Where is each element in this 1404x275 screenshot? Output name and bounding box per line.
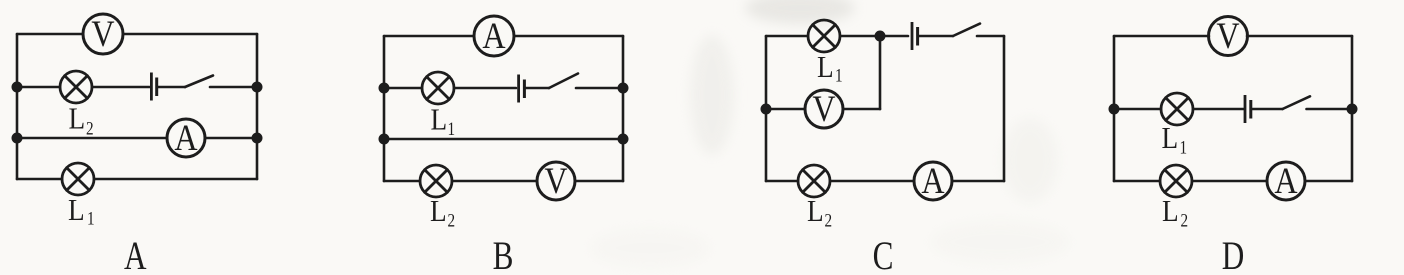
svg-text:2: 2 — [825, 210, 833, 231]
scan smudge right of C — [1002, 118, 1058, 202]
svg-text:A: A — [124, 233, 147, 275]
wire: B row3 plain wire — [384, 138, 623, 141]
wire: B top left segment — [384, 35, 474, 38]
node D-left-row2 — [1110, 105, 1118, 113]
wire: D top right segment — [1247, 35, 1352, 38]
wire: D row2 middle segment — [1193, 108, 1244, 111]
wire: C left vertical — [765, 36, 768, 181]
wire: C bottom left segment — [766, 180, 798, 183]
voltmeter V (circuit B bottom) — [537, 162, 575, 200]
lamp L2 (circuit C) — [798, 165, 830, 197]
switch S (circuit C) lever — [953, 24, 980, 36]
svg-text:A: A — [1274, 161, 1297, 201]
voltmeter V (circuit A top) — [83, 14, 123, 54]
svg-text:D: D — [1222, 233, 1245, 275]
svg-text:B: B — [493, 233, 514, 275]
lamp L2 (circuit B) — [420, 165, 452, 197]
battery (circuit D): short plate — [1249, 100, 1252, 119]
wire: B battery to switch — [526, 87, 549, 90]
scan smudge left of C — [690, 35, 734, 155]
wire: C battery to switch — [919, 35, 953, 38]
svg-text:A: A — [174, 118, 197, 158]
node A-left-row2 — [13, 83, 21, 91]
node B-left-row2 — [380, 84, 388, 92]
wire: C bottom right segment — [952, 180, 1004, 183]
node B-left-row3 — [380, 135, 388, 143]
lamp L1 (circuit C) — [808, 20, 840, 52]
svg-text:V: V — [91, 14, 114, 54]
svg-text:C: C — [873, 233, 894, 275]
wire: A row3 left segment — [17, 137, 167, 140]
svg-text:1: 1 — [448, 118, 456, 139]
switch S (circuit B) lever — [549, 74, 578, 89]
wire: A battery to switch — [158, 86, 185, 89]
svg-text:L: L — [817, 50, 834, 84]
wire: B right vertical — [622, 36, 625, 181]
svg-text:L: L — [69, 102, 86, 136]
svg-text:L: L — [68, 193, 85, 227]
switch S (circuit A) lever — [185, 76, 213, 88]
ammeter A (circuit A) — [167, 119, 205, 157]
svg-text:L: L — [807, 194, 824, 228]
scan smudge top of C — [745, 0, 855, 24]
svg-text:V: V — [544, 161, 567, 201]
svg-text:A: A — [921, 161, 944, 201]
lamp L1 (circuit D) — [1161, 93, 1193, 125]
voltmeter V (circuit C) — [805, 90, 843, 128]
wire: B top right segment — [514, 35, 623, 38]
wire: D battery to switch — [1253, 108, 1283, 111]
wire: A top right segment — [123, 33, 257, 36]
wire: B row2 middle segment — [454, 87, 516, 90]
node D-right-row2 — [1348, 105, 1356, 113]
node B-right-row2 — [619, 84, 627, 92]
wire: B bottom right segment — [575, 180, 623, 183]
node B-right-row3 — [619, 135, 627, 143]
lamp L1 (circuit A) — [62, 163, 94, 195]
svg-text:A: A — [482, 16, 505, 56]
wire: A top left segment — [17, 33, 83, 36]
wire: C lamp to node — [840, 35, 908, 38]
ammeter A (circuit C) — [914, 162, 952, 200]
switch S (circuit D) lever — [1283, 96, 1311, 109]
wire: A row2 left segment — [17, 86, 60, 89]
lamp L2 (circuit D) — [1160, 165, 1192, 197]
battery (circuit A): short plate — [155, 78, 158, 97]
node A-left-row3 — [13, 134, 21, 142]
svg-text:L: L — [1162, 194, 1179, 228]
svg-text:V: V — [1216, 16, 1239, 56]
node C-left (junction of V branch) — [762, 105, 770, 113]
wire: A row2 middle segment — [92, 86, 150, 89]
wire: D switch to right node — [1307, 108, 1353, 111]
wire: D right vertical — [1351, 36, 1354, 181]
svg-text:L: L — [431, 103, 448, 137]
wire: C V-branch right segment — [843, 108, 880, 111]
svg-text:L: L — [1162, 121, 1179, 155]
ammeter A (circuit B top) — [474, 16, 514, 56]
svg-text:L: L — [430, 194, 447, 228]
wire: D row2 left segment — [1114, 108, 1161, 111]
wire: D bottom middle segment — [1192, 180, 1267, 183]
wire: D bottom left segment — [1114, 180, 1160, 183]
wire: D bottom right segment — [1305, 180, 1352, 183]
wire: A left vertical — [16, 34, 19, 179]
battery (circuit C): short plate — [916, 27, 919, 46]
wire: A switch to right node — [210, 86, 257, 89]
battery (circuit A): long plate — [150, 73, 153, 101]
scan smudge bottom right of C — [930, 220, 1070, 264]
wire: C riser from top node down to V branch — [879, 36, 882, 109]
node A-right-row3 — [253, 134, 261, 142]
svg-text:V: V — [812, 89, 835, 129]
battery (circuit B): short plate — [523, 80, 526, 99]
svg-text:2: 2 — [86, 118, 94, 139]
svg-text:1: 1 — [835, 65, 843, 86]
wire: C right vertical — [1003, 36, 1006, 181]
wire: C switch to top-right corner — [977, 35, 1004, 38]
wire: C bottom middle segment — [830, 180, 914, 183]
wire: A bottom right segment — [94, 178, 257, 181]
svg-text:1: 1 — [87, 208, 95, 229]
wire: B bottom middle segment — [452, 180, 537, 183]
wire: C V-branch left segment — [766, 108, 805, 111]
lamp L2 (circuit A) — [60, 71, 92, 103]
wire: C top left segment — [766, 35, 808, 38]
svg-text:2: 2 — [1181, 210, 1189, 231]
battery (circuit B): long plate — [517, 75, 520, 103]
scan smudge bottom middle — [590, 228, 710, 268]
wire: A row3 right segment — [205, 137, 257, 140]
wire: B left vertical — [383, 36, 386, 181]
svg-text:2: 2 — [448, 210, 456, 231]
battery (circuit C): long plate — [911, 22, 914, 50]
wire: A bottom left segment — [17, 178, 62, 181]
wire: A right vertical — [256, 34, 259, 179]
wire: B row2 left segment — [384, 87, 422, 90]
node C-top (junction of V branch riser) — [876, 32, 884, 40]
svg-text:1: 1 — [1180, 137, 1188, 158]
wire: D top left segment — [1114, 35, 1209, 38]
wire: B bottom left segment — [384, 180, 420, 183]
node A-right-row2 — [253, 83, 261, 91]
voltmeter V (circuit D top) — [1209, 17, 1248, 56]
battery (circuit D): long plate — [1244, 95, 1247, 123]
wire: B switch to right node — [576, 87, 623, 90]
lamp L1 (circuit B) — [422, 72, 454, 104]
ammeter A (circuit D) — [1267, 162, 1305, 200]
wire: D left vertical — [1113, 36, 1116, 181]
